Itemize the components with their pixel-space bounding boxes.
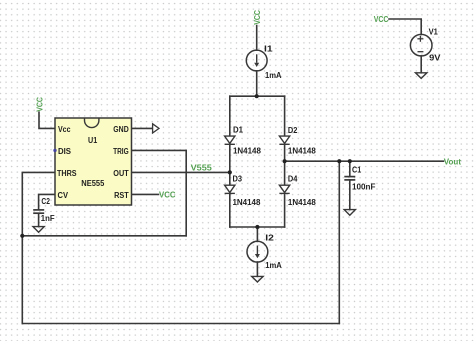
junction C1 at Vout rail <box>348 159 352 163</box>
junction Vout / D2-D4 node <box>283 159 287 163</box>
wire CV to C2 <box>39 194 55 209</box>
svg-text:D1: D1 <box>233 125 243 135</box>
svg-text:1mA: 1mA <box>265 70 282 80</box>
wire Vout rail <box>285 160 444 162</box>
svg-text:GND: GND <box>113 124 128 134</box>
svg-text:THRS: THRS <box>57 168 77 178</box>
svg-text:RST: RST <box>114 190 129 200</box>
svg-text:VCC: VCC <box>252 9 262 24</box>
svg-text:D4: D4 <box>288 173 298 183</box>
port arrow at GND pin <box>153 124 159 133</box>
wire V1 to ground <box>420 56 422 73</box>
voltage source V1 <box>410 34 432 56</box>
diode D1 <box>225 136 235 144</box>
current source I2 <box>247 241 268 262</box>
diode D3 <box>225 185 235 193</box>
wire bottom rail <box>22 323 339 325</box>
wire D1 cathode to OUT node <box>229 144 231 172</box>
svg-text:D2: D2 <box>288 125 298 135</box>
svg-text:Vout: Vout <box>444 157 461 167</box>
wire top rail D1-D2 <box>230 95 285 97</box>
wire D2 cathode to Vout node <box>284 144 286 161</box>
svg-text:1nF: 1nF <box>41 213 55 223</box>
wire D3 cathode down <box>229 193 231 227</box>
capacitor C1 <box>344 177 355 180</box>
wire RST to VCC label <box>132 193 159 195</box>
diode D4 <box>279 185 289 193</box>
wire VCC to U1 Vcc pin <box>39 112 55 128</box>
unconnected pin marker DIS <box>53 149 56 152</box>
svg-text:1mA: 1mA <box>265 260 282 270</box>
wire VCC to V1 <box>389 19 421 35</box>
svg-text:VCC: VCC <box>374 14 389 24</box>
wire bottom rail up to Vout node <box>338 161 340 323</box>
svg-text:VCC: VCC <box>34 96 44 111</box>
wire D4 cathode down <box>284 193 286 227</box>
svg-text:U1: U1 <box>88 135 97 145</box>
wire node to D4 anode <box>284 161 286 185</box>
current source I1 <box>246 50 267 71</box>
svg-text:C1: C1 <box>352 165 361 175</box>
svg-text:I1: I1 <box>264 43 273 53</box>
junction THRS-TRIG node <box>20 234 24 238</box>
svg-text:1N4148: 1N4148 <box>233 146 261 156</box>
wire THRS net left and down to bottom rail <box>22 172 55 323</box>
junction I1 top rail <box>255 94 259 98</box>
svg-text:C2: C2 <box>41 196 50 206</box>
wire C1 to ground <box>349 180 351 210</box>
svg-text:1N4148: 1N4148 <box>233 197 261 207</box>
junction bottom rail to Vout <box>337 159 341 163</box>
wire bottom rail D3-D4 <box>230 226 285 228</box>
svg-text:1N4148: 1N4148 <box>288 146 316 156</box>
ground below V1 <box>416 73 427 79</box>
diode D2 <box>279 136 289 144</box>
wire C2 to ground <box>38 213 40 226</box>
wire TRIG right and down <box>132 150 187 235</box>
svg-text:TRIG: TRIG <box>113 146 129 156</box>
wire I2 to ground <box>256 262 258 276</box>
wire GND pin stub <box>132 127 153 129</box>
svg-text:DIS: DIS <box>58 146 71 156</box>
wire node to D3 anode <box>229 172 231 185</box>
svg-text:CV: CV <box>58 190 69 200</box>
ground below C2 <box>33 227 44 233</box>
junction OUT / D1-D3 node <box>228 170 232 174</box>
wire junction to I2 <box>256 227 258 241</box>
ground below C1 <box>344 210 355 216</box>
svg-text:D3: D3 <box>233 173 243 183</box>
svg-text:9V: 9V <box>429 53 441 63</box>
svg-text:I2: I2 <box>265 233 274 243</box>
IC U1 NE555 body <box>55 118 132 205</box>
svg-text:Vcc: Vcc <box>58 124 71 134</box>
wire I1 to junction <box>256 71 258 96</box>
wire junction to D2 anode <box>284 96 286 136</box>
wire TRIG to THRS junction <box>22 235 186 237</box>
wire junction to D1 anode <box>229 96 231 136</box>
svg-text:100nF: 100nF <box>352 182 375 192</box>
svg-text:VCC: VCC <box>159 189 176 199</box>
junction D3-D4 bottom node <box>255 225 259 229</box>
svg-text:V555: V555 <box>191 162 212 172</box>
capacitor C2 <box>33 210 44 213</box>
svg-text:1N4148: 1N4148 <box>288 197 316 207</box>
svg-text:OUT: OUT <box>113 168 129 178</box>
wire OUT to D1-D3 node <box>132 171 230 173</box>
wire Vout node to C1 <box>349 161 351 176</box>
svg-text:NE555: NE555 <box>81 178 104 188</box>
svg-text:V1: V1 <box>429 26 438 36</box>
wire VCC to I1 <box>256 26 258 51</box>
ground below I2 <box>252 276 263 282</box>
